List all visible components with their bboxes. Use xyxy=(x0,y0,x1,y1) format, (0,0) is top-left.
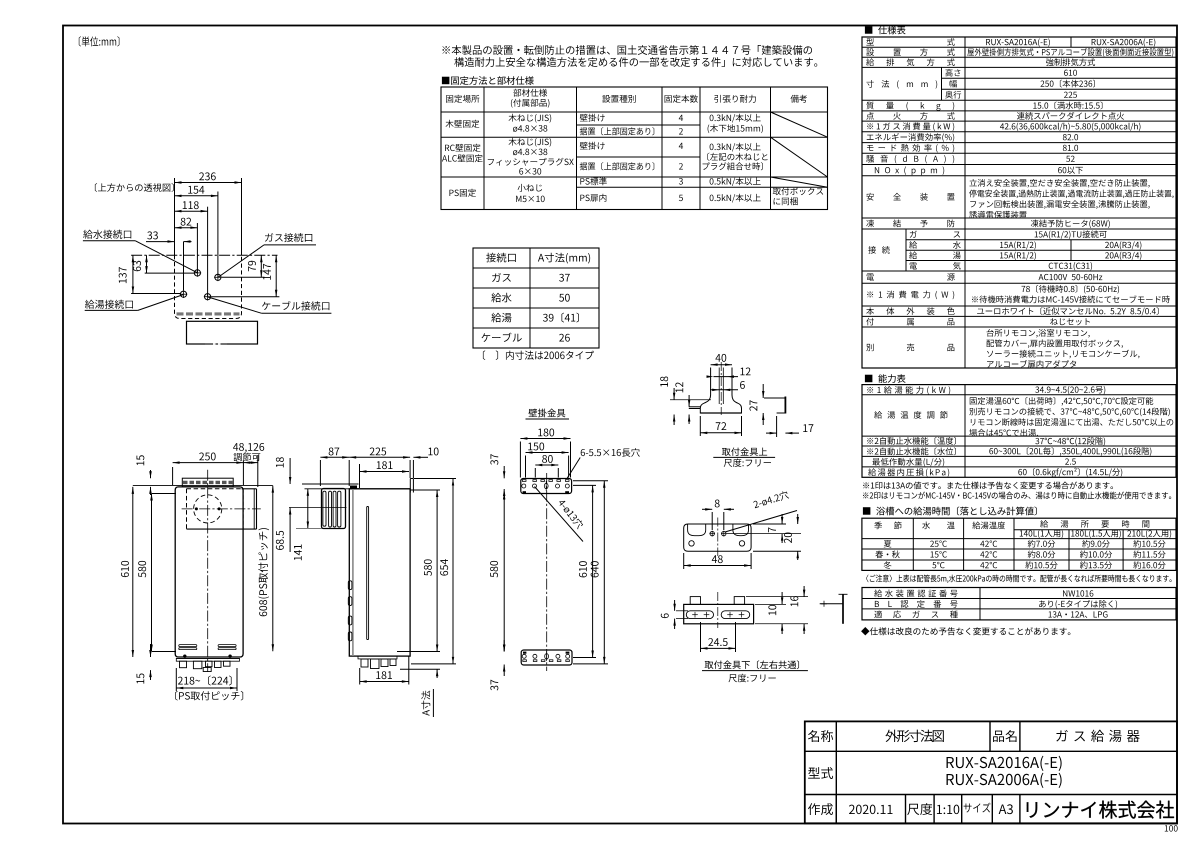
dim 18 fitting xyxy=(673,388,675,400)
fitting bottom title xyxy=(705,660,799,669)
label gas xyxy=(265,233,312,242)
dim 181 top xyxy=(360,471,410,473)
dim 154 xyxy=(175,195,218,197)
fixing methods table xyxy=(442,76,534,85)
dim 15 bottom xyxy=(150,644,152,657)
side top body edge xyxy=(305,488,411,490)
side seam slot xyxy=(367,507,369,640)
side view body xyxy=(349,489,410,656)
dim 10 fitting xyxy=(781,592,783,604)
top view wall chain line xyxy=(131,254,277,256)
dim 218-224 xyxy=(175,668,177,691)
bottom fittings xyxy=(176,657,239,659)
bottom mount dots xyxy=(183,655,186,658)
dim 40 xyxy=(711,364,732,366)
dim 181 bottom xyxy=(360,681,409,683)
dim 72 xyxy=(700,432,741,434)
fitting top title xyxy=(722,447,767,455)
label holes 4-d13 xyxy=(535,487,584,542)
dim 236 xyxy=(175,182,242,184)
dim 654 xyxy=(452,479,454,664)
top view label xyxy=(95,183,174,192)
fitting bottom front view xyxy=(684,604,754,623)
gas point xyxy=(215,274,221,280)
title block xyxy=(805,721,1177,823)
dim 225 xyxy=(349,456,410,458)
label slot holes xyxy=(581,448,640,457)
spec table xyxy=(865,26,906,35)
dim 137 xyxy=(132,255,134,293)
dim 20 xyxy=(797,514,799,524)
fitting bottom side profile xyxy=(820,603,843,605)
dim 48 xyxy=(684,565,751,567)
dim 8 xyxy=(702,508,712,510)
dim A xyxy=(400,668,440,670)
certification table xyxy=(862,588,1176,620)
bracket bottom plate xyxy=(521,650,572,665)
label cable xyxy=(262,301,329,310)
dim 580 bracket xyxy=(503,492,505,651)
exhaust dots xyxy=(195,507,198,510)
dim 147 xyxy=(275,255,277,297)
dim 18 side xyxy=(289,458,291,484)
dim 12 stem xyxy=(714,376,739,378)
dim 118 xyxy=(175,210,208,212)
front view body xyxy=(175,487,243,657)
front top edge line xyxy=(133,485,273,487)
dim 87 xyxy=(320,456,349,458)
dim 24.5 xyxy=(701,647,736,649)
side top plate xyxy=(302,483,359,485)
louver box xyxy=(322,489,346,529)
vents xyxy=(179,645,197,647)
exhaust circle xyxy=(194,495,222,523)
fitting top profile xyxy=(700,368,741,414)
dim 68.5 xyxy=(289,508,291,553)
label 2-d4.2 holes xyxy=(725,511,797,533)
bracket centerline xyxy=(546,473,548,671)
dim 17 xyxy=(766,432,777,434)
dim 16 fitting xyxy=(803,586,805,597)
top view bracket hatch xyxy=(177,312,240,315)
hot water point xyxy=(180,291,186,297)
side bottom fittings xyxy=(358,656,397,659)
bath hot-water time table xyxy=(863,507,1037,516)
dim 250 xyxy=(172,467,174,485)
dim 27 xyxy=(762,384,764,398)
dim 12 plate xyxy=(688,395,690,407)
A-dimension table xyxy=(473,248,599,348)
note text xyxy=(442,45,812,55)
adjustable exhaust dim xyxy=(257,455,259,487)
dim 610 bracket xyxy=(592,485,594,657)
wall rail xyxy=(409,479,411,493)
dim 82 xyxy=(175,227,198,229)
side inner gray line xyxy=(352,489,354,656)
cable point xyxy=(205,294,211,300)
extension verticals xyxy=(174,178,176,255)
dim 63 xyxy=(146,255,148,273)
front top bracket xyxy=(182,478,233,487)
dim 37 top xyxy=(503,466,505,478)
dim 80 xyxy=(535,464,558,466)
dim 79 xyxy=(260,255,262,277)
dim 180 xyxy=(520,438,570,440)
dim 580 xyxy=(151,494,153,652)
wall bracket title xyxy=(528,409,565,418)
label water inlet xyxy=(83,230,131,239)
dim 141 xyxy=(307,489,309,529)
dim 610 xyxy=(132,487,134,657)
body right edge hidden dashes xyxy=(242,489,244,529)
fitting bottom top view xyxy=(684,524,751,551)
dim 608 PS pitch xyxy=(272,486,274,652)
dim 640 bracket xyxy=(603,481,605,664)
dim 6 slot xyxy=(710,389,738,391)
top view body dashed outline xyxy=(175,255,242,318)
water inlet point xyxy=(194,270,200,276)
dim 10 xyxy=(413,456,428,458)
fitting top side profile xyxy=(764,397,785,399)
dim 580 side xyxy=(436,490,438,652)
dim 6 fitting xyxy=(674,600,676,611)
dim 150 xyxy=(526,452,569,454)
label hot water xyxy=(85,300,133,309)
bracket top plate xyxy=(521,479,572,494)
dim 15 top xyxy=(150,470,152,478)
dim 37 bottom xyxy=(503,640,505,652)
dim 33 xyxy=(146,241,175,243)
side port slots xyxy=(348,581,352,590)
port centerline xyxy=(289,507,347,509)
exhaust box xyxy=(187,488,242,490)
top view lower solid body xyxy=(187,321,258,344)
capability table xyxy=(865,374,906,383)
dim 7 xyxy=(781,514,783,524)
